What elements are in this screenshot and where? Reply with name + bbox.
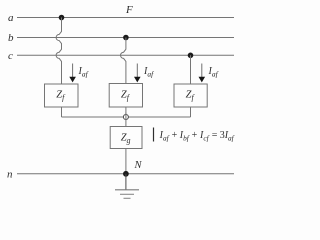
svg-text:F: F: [125, 4, 133, 16]
junction node on phase b: [123, 35, 129, 41]
bus junction circle: [123, 115, 128, 120]
wire Zf3 to common bus: [190, 107, 192, 117]
current arrow Iaf (branch 1): [69, 64, 76, 83]
impedance Zg: [110, 127, 142, 149]
neutral line n: [17, 173, 234, 175]
current arrow Iaf (branch 2): [134, 64, 141, 83]
svg-text:+: +: [172, 130, 178, 141]
junction node on phase a: [59, 15, 65, 21]
impedance Zf1: [45, 84, 79, 107]
equation bracket: [153, 128, 155, 142]
svg-text:c: c: [8, 50, 13, 62]
wire from phase a to Zf1 (hops over b and c): [56, 18, 61, 85]
junction node on phase c: [188, 53, 194, 59]
phase line c: [17, 54, 234, 56]
svg-text:n: n: [7, 168, 13, 180]
current arrow Iaf (branch 3): [199, 64, 206, 83]
junction node N on neutral: [123, 171, 129, 177]
phase line a: [17, 17, 234, 19]
svg-text:N: N: [134, 160, 143, 171]
equation Iaf + Ibf + Icf = 3Iaf: [159, 130, 235, 143]
common bus wire: [62, 116, 191, 118]
wire Zf1 to common bus: [61, 107, 63, 117]
wire from phase c to Zf3: [190, 55, 192, 84]
impedance Zf2: [109, 84, 142, 108]
svg-text:=: =: [212, 130, 218, 141]
wire Zg to neutral: [125, 149, 127, 174]
ground symbol: [115, 190, 139, 199]
wire from phase b to Zf2 (hops over c): [121, 38, 126, 84]
wire bus to Zg (through junction circle): [125, 113, 127, 127]
svg-text:+: +: [192, 130, 198, 141]
phase line b: [17, 37, 234, 39]
svg-text:a: a: [8, 12, 14, 24]
ground stub wire: [125, 174, 127, 190]
wire Zf2 to common bus: [125, 107, 127, 117]
svg-text:b: b: [8, 32, 14, 44]
impedance Zf3: [174, 84, 207, 107]
